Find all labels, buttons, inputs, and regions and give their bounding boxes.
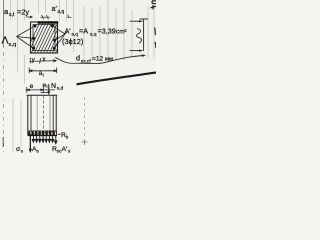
dimension squiggle label <box>137 29 142 44</box>
svg-text:=A: =A <box>79 27 88 36</box>
cut-off marks at right edge <box>151 1 157 48</box>
column elevation left edge <box>27 95 29 135</box>
svg-text:=12: =12 <box>92 56 104 63</box>
svg-text:s,q: s,q <box>58 9 65 15</box>
svg-text:b: b <box>66 134 69 139</box>
compressed zone hatch band <box>28 131 57 135</box>
svg-text:=2y: =2y <box>17 8 29 17</box>
top edge of compressed zone <box>28 130 57 132</box>
right vertical dimension line <box>130 19 149 51</box>
svg-text:s,t: s,t <box>9 12 15 18</box>
paper background <box>0 0 156 160</box>
page margin axis line (dash-dot) <box>3 0 5 47</box>
long leader stroke lower right <box>77 72 157 84</box>
arrowhead of dsx leader <box>142 54 146 57</box>
svg-text:(3ɸ12): (3ɸ12) <box>62 37 83 46</box>
elevation centerline dashed <box>42 96 44 141</box>
stirrup <box>33 25 55 51</box>
small arrow to section edge <box>26 16 33 18</box>
base line of column <box>28 135 57 137</box>
thick top edge of section <box>38 21 59 23</box>
cross-section outer square <box>31 22 58 53</box>
e / et / N dimension line above elevation <box>25 87 55 93</box>
arrowhead top reference arrow <box>139 20 143 22</box>
a dimension line (second) <box>29 67 57 73</box>
leader to dsx text <box>55 56 143 64</box>
svg-text:e: e <box>30 83 34 90</box>
right rebar line <box>52 95 54 135</box>
left leader fan to As bars <box>17 26 35 48</box>
steel force arrow sigma_s As <box>29 136 31 150</box>
cross mark at centerline end <box>82 139 88 145</box>
base stress arrows <box>32 136 57 144</box>
arrowhead bottom reference arrow <box>139 50 143 52</box>
rebar dots right <box>51 24 56 50</box>
svg-text:A′: A′ <box>65 27 72 36</box>
faint inner line <box>36 96 38 135</box>
faint ruling lines (paper texture) <box>11 0 155 152</box>
svg-text:d: d <box>76 54 80 63</box>
svg-text:cm²: cm² <box>116 29 127 36</box>
rebar dots left <box>32 25 36 50</box>
left rebar line <box>30 95 32 135</box>
right leader fan to A's bars <box>53 26 67 48</box>
svg-text:N: N <box>51 83 56 90</box>
column elevation right edge <box>55 95 57 135</box>
svg-text:Λ: Λ <box>2 35 9 47</box>
N load arrow <box>48 84 50 93</box>
svg-text:s,q: s,q <box>90 32 97 37</box>
corner ticks right of section <box>67 15 72 18</box>
centerline dashed x=84.5 lower right <box>84 97 86 138</box>
svg-text:s,d: s,d <box>57 86 64 92</box>
label Rb with leader dash <box>58 133 61 135</box>
x y dimension line under section <box>30 58 56 64</box>
svg-text:s,q: s,q <box>9 42 17 48</box>
column elevation top line <box>27 94 58 96</box>
svg-text:sx,cf: sx,cf <box>81 58 92 64</box>
svg-text:=3,39: =3,39 <box>98 27 116 36</box>
column cross-section hatching <box>23 18 75 58</box>
cover dimension ticks <box>41 15 51 20</box>
svg-text:мм: мм <box>105 56 113 62</box>
